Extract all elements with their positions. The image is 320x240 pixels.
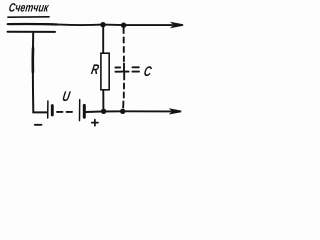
wire: battery to bottom rail (86, 111, 101, 114)
battery U: cell 2 long plate (79, 100, 81, 121)
node D: junction bottom rail / capacitor (dashed) (120, 109, 125, 114)
arrow: top output (170, 22, 183, 29)
wire: dashed from node B down to capacitor C (123, 28, 125, 70)
wire: dashed link between battery cells (57, 111, 72, 113)
svg-text:R: R (90, 62, 100, 78)
node A: junction top rail / resistor (100, 22, 105, 27)
resistor R (body) (101, 53, 109, 90)
svg-text:U: U (61, 89, 72, 105)
capacitor C bottom plate (dashed) (115, 71, 139, 73)
wire: node A down to resistor R (102, 25, 104, 53)
wire: dashed from capacitor C down to node D (123, 72, 124, 107)
label "Счетчик" (counter) (8, 0, 50, 14)
battery U: cell 1 long plate (47, 101, 49, 118)
svg-text:C: C (143, 63, 154, 79)
wire: resistor R down to node C (102, 90, 104, 110)
svg-text:Счетчик: Счетчик (8, 0, 50, 14)
label plus (battery positive) (92, 120, 98, 126)
label U (battery voltage) (61, 89, 72, 105)
label minus (battery negative) (35, 124, 42, 126)
battery U: cell 1 short thick plate (51, 106, 54, 115)
counter cathode plate (8, 31, 56, 33)
wire: counter cathode down to battery minus (33, 33, 47, 113)
node C: junction bottom rail / resistor / battery (101, 109, 106, 114)
capacitor C top plate (dashed) (115, 66, 138, 68)
arrow: bottom output (169, 108, 182, 114)
wire: top rail (counter anode to output) (8, 24, 173, 25)
node B: junction top rail / capacitor (dashed) (121, 23, 126, 28)
wire: bottom rail to output (101, 110, 171, 112)
label C (143, 63, 154, 79)
label underline (8, 16, 49, 18)
label R (90, 62, 100, 78)
battery U: cell 2 short thick plate (83, 105, 86, 117)
